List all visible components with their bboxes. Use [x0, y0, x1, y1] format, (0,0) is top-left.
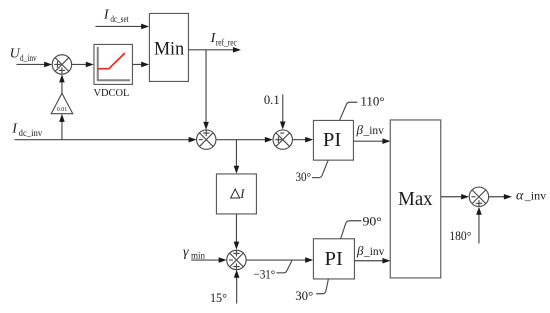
block VDCOL: [94, 44, 133, 84]
summing junction S4: [227, 250, 246, 270]
svg-text:−31°: −31°: [254, 267, 276, 282]
svg-text:180°: 180°: [449, 228, 471, 243]
label alpha_inv: [516, 189, 546, 204]
wire 180deg to S5: [478, 214, 480, 244]
svg-text:_inv: _inv: [362, 125, 384, 137]
wire PI1 to Max: [353, 140, 384, 142]
svg-text:0.1: 0.1: [264, 92, 280, 107]
svg-text:30°: 30°: [295, 169, 311, 184]
wire S5 to alpha_inv: [489, 196, 505, 198]
wire deltaI to S4: [235, 214, 237, 243]
svg-text:γ: γ: [183, 245, 189, 260]
block Max: [390, 120, 441, 278]
leader 30deg top: [312, 160, 328, 177]
wire branch Min output to S2: [205, 50, 207, 123]
wire Max to S5: [441, 196, 463, 198]
svg-text:VDCOL: VDCOL: [94, 88, 130, 99]
svg-text:_inv: _inv: [363, 246, 385, 258]
wire 0.1 to S3: [282, 94, 284, 122]
svg-text:α: α: [516, 189, 524, 204]
leader 110deg: [340, 102, 358, 120]
label beta_inv bottom: [356, 243, 385, 258]
svg-text:90°: 90°: [362, 213, 381, 228]
leader 90deg: [341, 221, 362, 239]
svg-text:110°: 110°: [360, 93, 384, 108]
wire gamma_min to S4: [191, 259, 220, 261]
wire S1 to VDCOL: [72, 63, 87, 65]
svg-text:Max: Max: [398, 188, 432, 210]
svg-text:β: β: [356, 243, 364, 258]
wire gain to S1: [61, 81, 63, 93]
leader 30deg bottom: [316, 279, 328, 294]
svg-text:0.01: 0.01: [57, 107, 67, 113]
label I_dc_inv: [11, 121, 42, 138]
svg-text:30°: 30°: [295, 288, 313, 303]
block deltaI: [216, 174, 256, 214]
gain 0.01 triangle: [51, 93, 73, 113]
svg-text:I: I: [239, 187, 245, 201]
wire I_dc_inv to S2: [14, 139, 190, 141]
block PI2: [313, 239, 354, 279]
label beta_inv top: [355, 122, 384, 137]
label I_dc_set: [103, 7, 129, 24]
block PI1: [313, 120, 353, 160]
svg-text:β: β: [355, 122, 363, 137]
summing junction S2: [197, 130, 216, 150]
svg-text:dc_set: dc_set: [110, 14, 129, 24]
wire U_d_inv to S1: [16, 63, 45, 65]
wire 15deg to S4: [236, 277, 238, 304]
wire S2 to S3: [216, 139, 266, 141]
wire S4 to PI2: [246, 259, 306, 261]
svg-text:min: min: [191, 250, 206, 260]
wire PI2 to Max: [354, 260, 384, 262]
svg-text:dc_inv: dc_inv: [19, 128, 43, 138]
wire Min output I_ref_rec: [188, 49, 234, 51]
wire VDCOL to Min: [132, 63, 142, 65]
wire branch I_dc_inv to gain: [61, 121, 63, 140]
svg-text:PI: PI: [324, 248, 343, 270]
label I_ref_rec: [210, 31, 237, 47]
svg-text:_inv: _inv: [524, 189, 546, 203]
leader -31deg: [276, 260, 292, 272]
summing junction S3: [273, 130, 292, 149]
svg-text:15°: 15°: [210, 290, 227, 305]
svg-text:Min: Min: [154, 39, 185, 60]
block Min: [149, 13, 188, 81]
label U_d_inv: [10, 46, 37, 63]
wire S3 to PI1: [292, 139, 306, 141]
summing junction S5: [469, 187, 488, 207]
svg-text:d_inv: d_inv: [20, 53, 37, 63]
svg-text:PI: PI: [323, 129, 342, 151]
wire I_dc_set to Min: [95, 25, 142, 27]
summing junction S1: [52, 55, 71, 74]
wire branch to deltaI: [235, 140, 237, 167]
label gamma_min: [183, 245, 206, 261]
svg-text:ref_rec: ref_rec: [216, 37, 237, 47]
